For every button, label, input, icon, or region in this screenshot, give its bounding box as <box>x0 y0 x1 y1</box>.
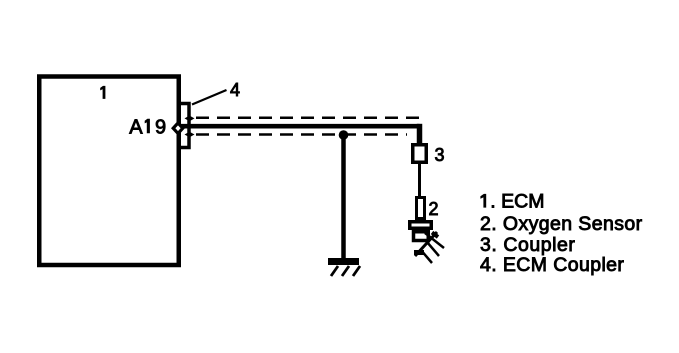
svg-text:2. Oxygen Sensor: 2. Oxygen Sensor <box>480 213 643 235</box>
svg-text:. ECM: . ECM <box>490 191 544 213</box>
svg-text:3. Coupler: 3. Coupler <box>480 234 575 256</box>
svg-text:4: 4 <box>230 80 240 100</box>
svg-text:3: 3 <box>435 145 445 165</box>
svg-text:2: 2 <box>429 199 439 219</box>
svg-text:9: 9 <box>155 116 166 138</box>
svg-text:4. ECM Coupler: 4. ECM Coupler <box>480 254 624 276</box>
svg-text:A: A <box>129 116 143 138</box>
